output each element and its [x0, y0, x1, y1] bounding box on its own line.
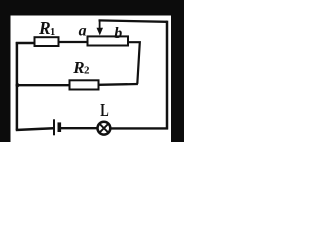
svg-text:R: R	[72, 58, 84, 77]
wire: right vertical	[166, 21, 169, 130]
wire: R2 branch left segment	[16, 84, 70, 86]
potentiometer wiper arrow	[99, 20, 101, 29]
wire: R2 right segment to corner	[99, 83, 138, 86]
battery short plate	[58, 122, 62, 132]
wire: pot terminal b right then down	[128, 42, 140, 84]
svg-text:L: L	[100, 100, 109, 120]
left black border band	[0, 0, 11, 142]
resistor R2	[70, 80, 99, 89]
lamp L circle	[98, 122, 111, 135]
wire: top-left horizontal to R1	[16, 42, 35, 44]
svg-text:2: 2	[84, 65, 90, 77]
wire: bottom horizontal, left part to battery	[16, 128, 54, 130]
potentiometer track a-b	[88, 36, 129, 45]
wire: battery to lamp	[61, 127, 97, 129]
svg-text:1: 1	[50, 27, 55, 38]
top black border band	[0, 0, 184, 16]
svg-text:a: a	[79, 22, 87, 39]
junction node on left wire	[16, 83, 20, 87]
right black border band	[171, 0, 184, 142]
lamp X cross	[100, 124, 109, 133]
wire: left vertical branch wire	[16, 42, 19, 130]
wire: R1 to potentiometer	[59, 41, 89, 43]
wire: lamp to bottom-right corner	[110, 127, 168, 129]
resistor R1	[35, 37, 59, 46]
svg-text:b: b	[114, 25, 122, 42]
battery long plate	[53, 119, 55, 135]
svg-text:R: R	[38, 18, 51, 38]
wire: wiper top horizontal	[99, 20, 168, 21]
